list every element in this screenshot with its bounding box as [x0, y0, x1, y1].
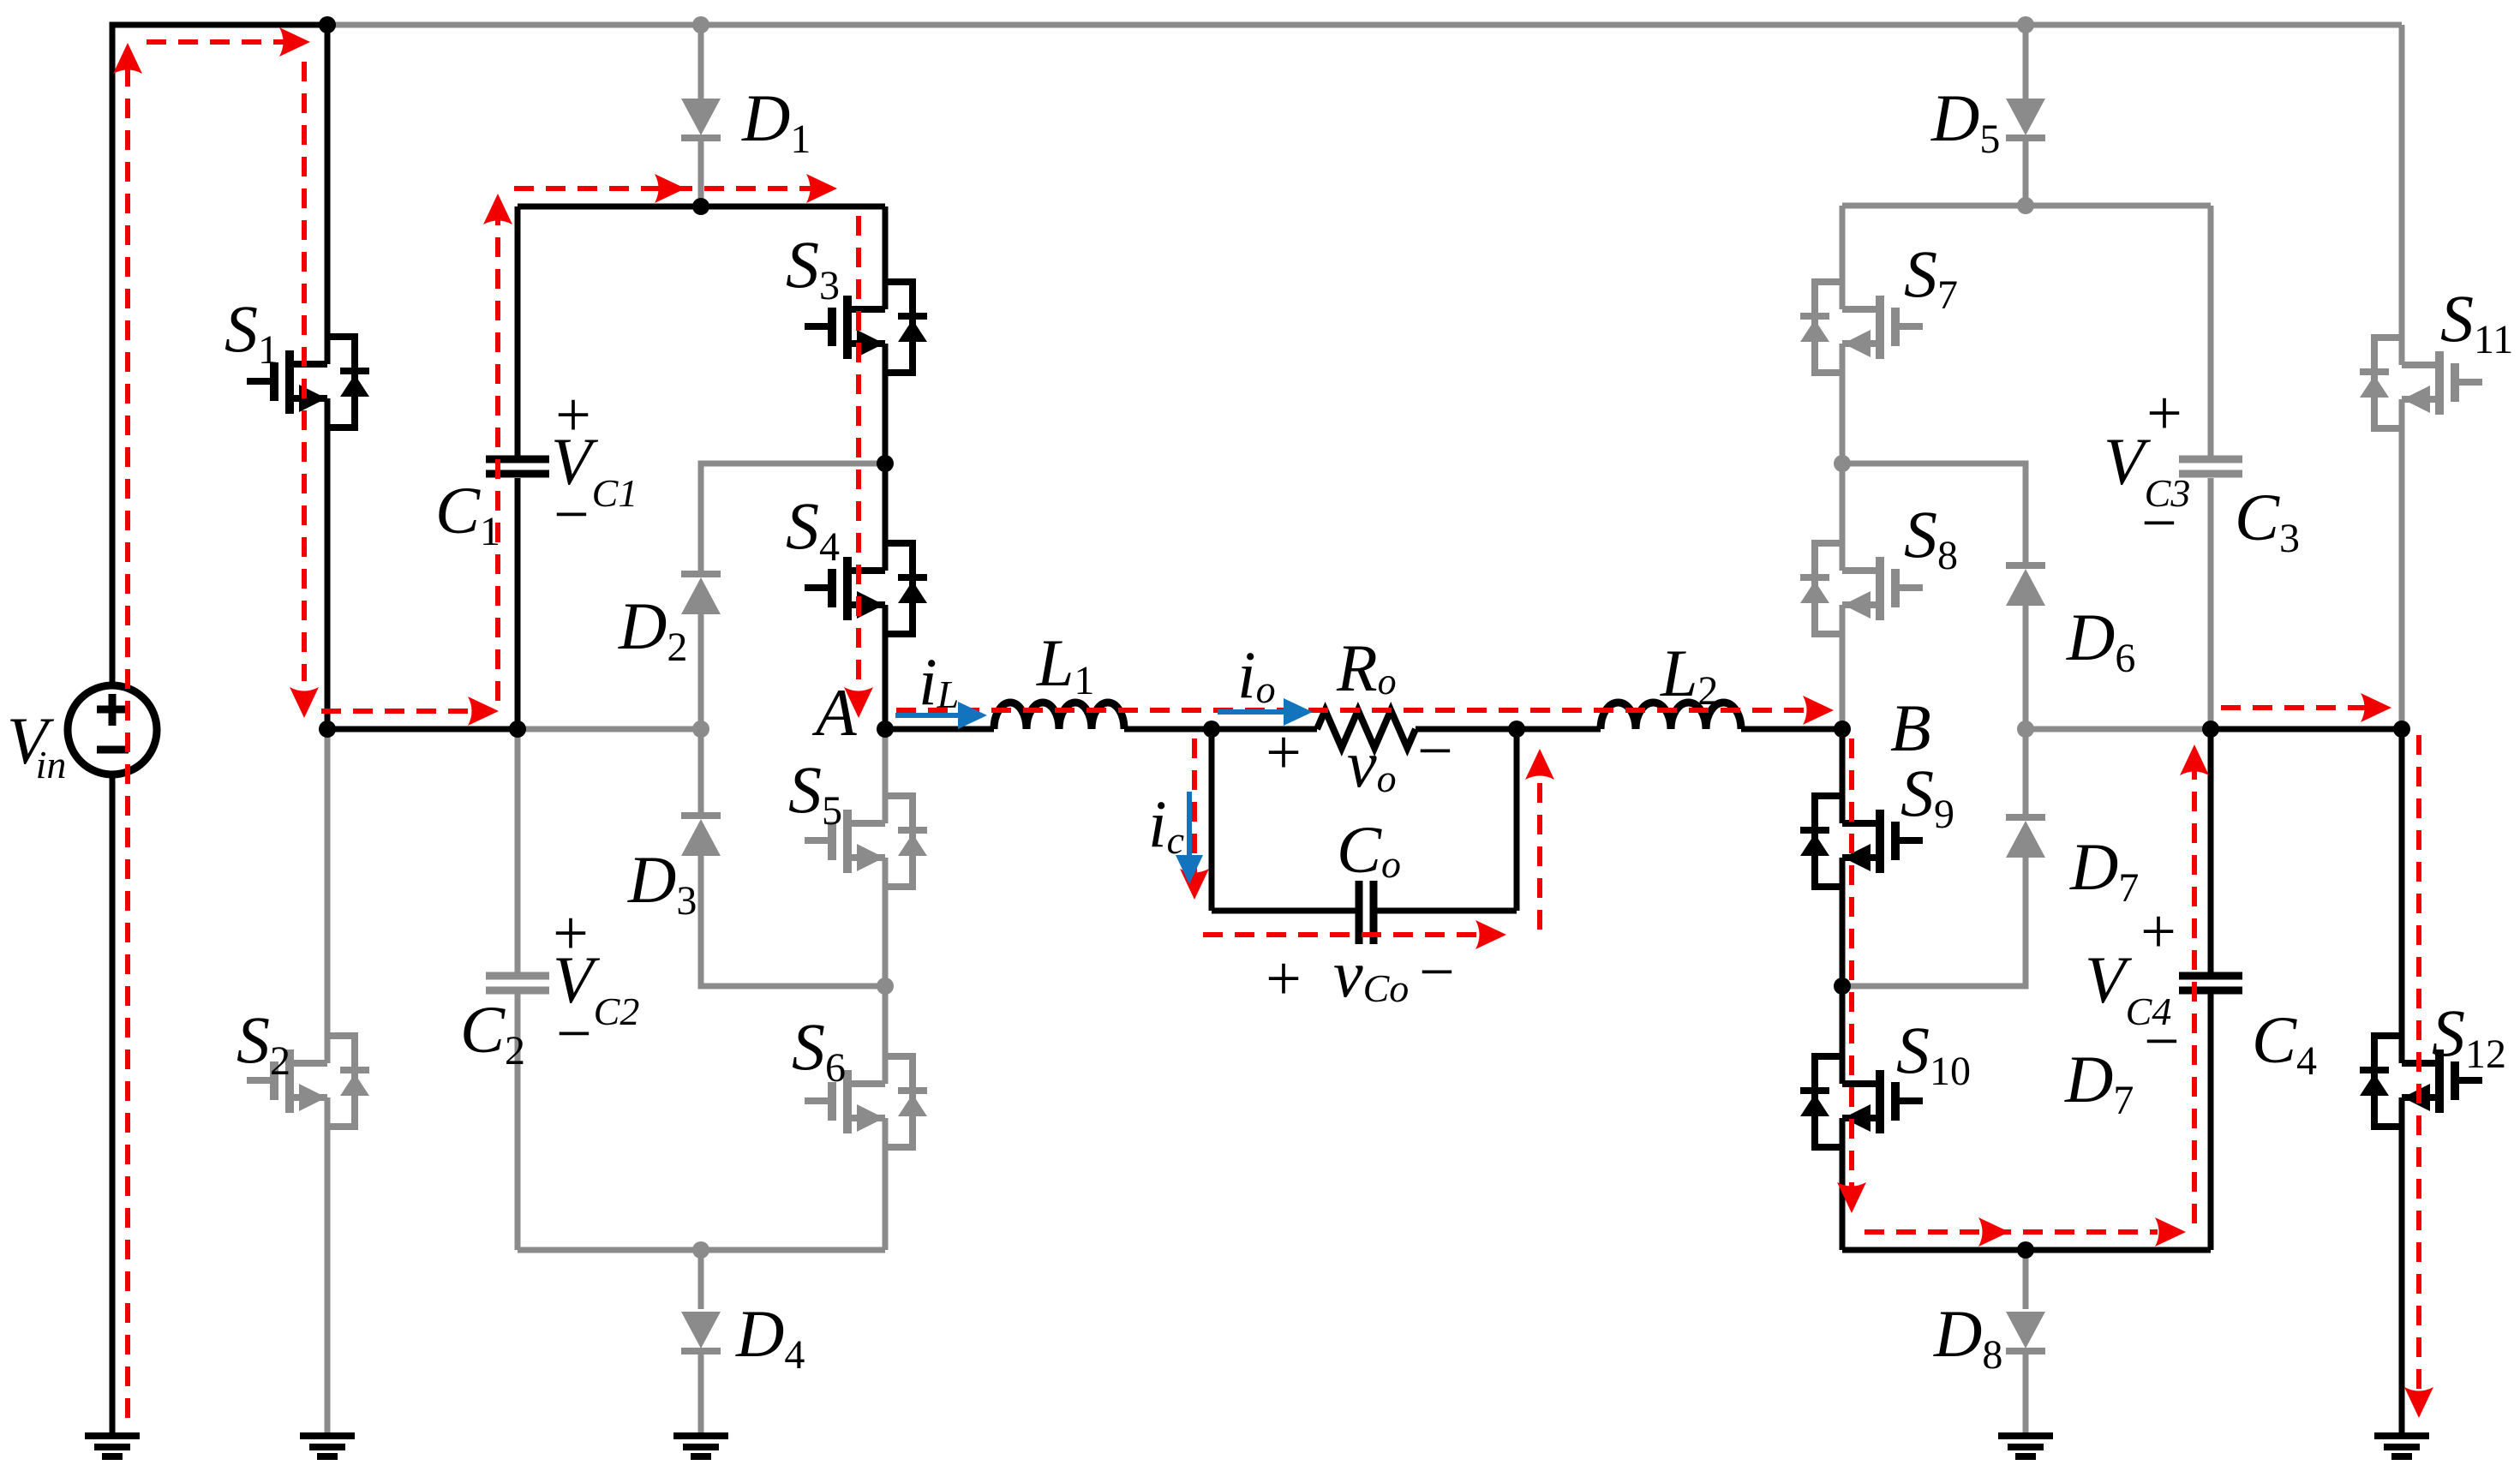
wire output loop right vertical [1514, 729, 1520, 911]
transistor S7 [1800, 282, 1923, 373]
svg-text:C4: C4 [2252, 1002, 2317, 1084]
node main D6-D7 [2017, 721, 2034, 738]
wire bottom jog S10 to C4 [1842, 1247, 2211, 1253]
svg-text:vCo: vCo [1333, 936, 1409, 1011]
wire D4 upper lead [698, 1250, 704, 1309]
wire main line C4 node to S12 node [2211, 727, 2402, 733]
node main C3-C4 [2202, 721, 2219, 738]
inductor L1 [994, 703, 1124, 729]
svg-text:S1: S1 [224, 291, 278, 373]
wire C2 lower leg [515, 994, 521, 1250]
wire S7 drain leg [1840, 206, 1846, 309]
wire node S9-S10 to S10 drain [1840, 986, 1846, 1084]
svg-text:−: − [2141, 488, 2177, 559]
inductor L2 [1601, 703, 1741, 729]
wire S9 drain from node B [1840, 729, 1846, 823]
node D1 at upper jog [692, 198, 709, 215]
node top rail D1 [692, 16, 709, 33]
svg-text:−: − [1419, 937, 1455, 1008]
red arrow right at top rail [279, 27, 310, 57]
red arrow up at Vin top [113, 43, 142, 74]
wire node S5-S6 to S6 drain [883, 986, 889, 1084]
svg-text:S11: S11 [2440, 281, 2513, 362]
wire S10 source to bottom jog [1840, 1118, 1846, 1250]
svg-text:vo: vo [1347, 727, 1397, 801]
svg-text:+: + [2140, 897, 2176, 967]
svg-text:io: io [1237, 637, 1276, 712]
svg-text:+: + [1266, 944, 1302, 1014]
diode D8 [2006, 1312, 2045, 1348]
wire S11 drain branch from top rail [2399, 25, 2405, 365]
wire main line node S1 to node C1 [327, 727, 518, 733]
wire C4 lower leg [2208, 994, 2214, 1250]
wire S3 source to S4 drain [883, 344, 889, 571]
diode D5 [2006, 99, 2045, 135]
svg-text:S3: S3 [786, 227, 840, 308]
svg-text:ic: ic [1148, 786, 1184, 862]
red dashed path down S1 branch [302, 62, 307, 681]
wire D7 jog to node S9-S10 [1842, 858, 2026, 986]
wire D3 upper lead [698, 729, 704, 812]
red arrow right on bottom jog end [2155, 1217, 2186, 1247]
wire D7 upper lead [2023, 729, 2029, 814]
red dashed path up output loop right [1537, 769, 1542, 930]
wire D4 lower lead [698, 1354, 704, 1433]
node B [1834, 721, 1851, 738]
svg-text:Vin: Vin [7, 703, 66, 786]
node main S1 [319, 721, 336, 738]
svg-text:L2: L2 [1660, 636, 1718, 714]
wire output loop bottom right of Co [1376, 908, 1517, 914]
transistor S9 [1800, 796, 1923, 887]
wire S6 source to bottom jog [883, 1118, 889, 1250]
transistor S2 [247, 1036, 369, 1127]
wire S4 source to node A [883, 605, 889, 729]
svg-text:C3: C3 [2235, 480, 2300, 561]
svg-text:S2: S2 [236, 1002, 290, 1084]
wire S3 drain leg [883, 206, 889, 309]
transistor S11 [2360, 338, 2482, 428]
ground at D4 [673, 1436, 728, 1456]
capacitor C2 [486, 972, 549, 980]
wire D6 lower lead [2023, 606, 2029, 729]
red dashed path up C1 branch [495, 214, 500, 701]
node main S11-S12 [2393, 721, 2410, 738]
ground at Vin [85, 1436, 140, 1456]
wire C3 lower leg [2208, 478, 2214, 729]
node main C1-C2 [509, 721, 526, 738]
svg-text:Ro: Ro [1336, 631, 1397, 705]
node A [877, 721, 894, 738]
wire C1 upper leg [515, 206, 521, 456]
transistor S1 [247, 337, 369, 428]
svg-text:−: − [556, 999, 592, 1069]
node output loop left [1203, 721, 1220, 738]
svg-text:D2: D2 [618, 589, 687, 670]
wire D1 upper lead [698, 25, 704, 101]
red dashed path main toward S12 [2221, 705, 2373, 710]
wire upper jog C1 to S3 [518, 204, 885, 210]
transistor S10 [1800, 1056, 1923, 1147]
red arrow down at S12 bottom [2404, 1387, 2433, 1418]
red dashed path main toward C1 [321, 709, 482, 714]
svg-text:S9: S9 [1900, 756, 1954, 837]
red dashed path top rail to S1 [147, 39, 300, 45]
svg-text:S6: S6 [792, 1009, 846, 1091]
wire D5 upper lead [2023, 25, 2029, 101]
wire D2 lower lead [698, 614, 704, 729]
node S7-S8 [1834, 455, 1851, 472]
svg-text:S12: S12 [2432, 996, 2506, 1077]
wire S7 source to S8 drain [1840, 344, 1846, 571]
wire C4 upper leg [2208, 729, 2214, 972]
red dashed path down S9-S10 branch [1849, 739, 1854, 1194]
transistor S12 [2360, 1036, 2482, 1127]
wire top rail gray segment [327, 22, 2402, 28]
wire D2 jog from node S3-S4 [701, 463, 885, 571]
svg-text:S4: S4 [786, 488, 840, 570]
wire L2 to node B [1741, 727, 1842, 733]
ground at S12 [2374, 1436, 2429, 1456]
svg-text:−: − [1417, 716, 1453, 786]
wire S8 source to node B [1840, 605, 1846, 729]
red dashed path bottom jog toward C4 [1865, 1229, 2158, 1235]
node D5 at upper jog [2017, 197, 2034, 214]
capacitor C1 [486, 456, 549, 463]
red arrow right below Co [1475, 920, 1506, 949]
transistor S3 [805, 282, 927, 373]
ground at D8 [1998, 1436, 2053, 1456]
red dashed path along Vin branch [125, 64, 130, 1418]
diode D1 [681, 99, 721, 135]
wire S2 drain branch [325, 729, 331, 1063]
red arrow right on bottom jog mid [1978, 1217, 2009, 1247]
transistor S4 [805, 543, 927, 634]
wire C2 upper leg [515, 729, 521, 972]
wire left node to resistor Ro [1212, 727, 1317, 733]
wire S1 drain branch [325, 25, 331, 364]
red dashed path upper jog toward S3 [514, 186, 823, 191]
blue arrow ic [1176, 792, 1203, 884]
node bottom jog D8 [2017, 1241, 2034, 1259]
red arrow up on output loop right [1525, 749, 1554, 780]
svg-text:C1: C1 [435, 473, 500, 554]
node top rail D5 [2017, 16, 2034, 33]
svg-text:−: − [2144, 1007, 2180, 1077]
wire upper jog S7 to C3 [1842, 203, 2211, 209]
diode D2 [681, 571, 721, 577]
svg-text:D5: D5 [1930, 81, 2000, 162]
svg-text:S10: S10 [1896, 1013, 1971, 1094]
svg-text:D7: D7 [2064, 1042, 2134, 1123]
wire S11 source to main node [2399, 399, 2405, 729]
svg-text:+: + [1266, 718, 1302, 788]
capacitor C4 [2179, 972, 2242, 980]
red arrow right before node B [1803, 696, 1834, 725]
wire D1 lower lead [698, 138, 704, 206]
wire S12 drain branch [2399, 729, 2405, 1063]
blue arrow iL [895, 702, 987, 729]
wire S1 source to main node [325, 398, 331, 729]
svg-text:D4: D4 [735, 1296, 805, 1378]
svg-text:D7: D7 [2069, 829, 2139, 911]
wire D8 upper lead [2023, 1250, 2029, 1309]
svg-text:−: − [554, 480, 590, 550]
svg-text:A: A [811, 675, 857, 750]
wire S5 source to node S5-S6 [883, 858, 889, 986]
svg-text:D1: D1 [741, 81, 811, 162]
wire output loop bottom left of Co [1212, 908, 1356, 914]
diode D7 [2006, 814, 2045, 821]
blue arrow io [1218, 698, 1313, 726]
resistor Ro [1317, 710, 1416, 748]
svg-text:S8: S8 [1904, 497, 1958, 578]
node main D2-D3 [692, 721, 709, 738]
node bottom jog D4 [692, 1241, 709, 1259]
diode D6 [2006, 562, 2045, 569]
wire Vin bottom to ground [110, 774, 116, 1433]
wire D5 lower lead [2023, 138, 2029, 206]
red dashed path down S12 branch [2416, 735, 2421, 1395]
red dashed path up C4 branch [2192, 767, 2197, 1223]
red dashed path down output loop left [1192, 739, 1197, 874]
wire node A to L1 [885, 727, 994, 733]
wire D8 lower lead [2023, 1354, 2029, 1433]
svg-text:S5: S5 [788, 752, 842, 834]
wire output loop left vertical [1209, 729, 1215, 911]
capacitor C3 [2179, 456, 2242, 463]
svg-text:iL: iL [919, 644, 959, 719]
red dashed path down S3-S4 branch [856, 216, 861, 684]
transistor S6 [805, 1056, 927, 1147]
red arrow down at S1 bottom [290, 687, 319, 718]
svg-text:L1: L1 [1036, 625, 1094, 703]
capacitor Co [1359, 881, 1374, 944]
wire L1 to output loop left node [1124, 727, 1212, 733]
wire D3 jog to node S5-S6 [701, 856, 885, 986]
svg-text:D6: D6 [2066, 600, 2135, 681]
wire C3 upper leg [2208, 206, 2214, 456]
wire main line gray node C1 to node D2/D3 [518, 727, 701, 733]
wire main line gray D6/D7 node to C3/C4 node [2026, 727, 2211, 733]
node output loop right [1508, 721, 1525, 738]
svg-text:Co: Co [1337, 812, 1401, 887]
diode D4 [681, 1312, 721, 1348]
node S9-S10 [1834, 978, 1851, 995]
wire S2 source to ground [325, 1097, 331, 1433]
wire C1 lower leg [515, 478, 521, 729]
wire S5 drain from node A [883, 729, 889, 823]
svg-text:S7: S7 [1904, 236, 1958, 318]
wire right node to L2 [1517, 727, 1601, 733]
red arrow down on output loop left [1180, 869, 1209, 900]
red dashed path main line A to B [896, 708, 1815, 713]
voltage source Vin [68, 685, 157, 774]
wire S12 source to ground [2399, 1097, 2405, 1433]
red arrow down above bottom jog [1837, 1182, 1866, 1213]
diode D3 [681, 812, 721, 819]
node S5-S6 [877, 978, 894, 995]
node top rail S1 [319, 16, 336, 33]
red arrow right before S12 node [2361, 693, 2391, 722]
svg-text:D8: D8 [1933, 1296, 2002, 1378]
red arrow right on upper jog mid [655, 174, 685, 203]
transistor S5 [805, 796, 927, 887]
red dashed path below Co [1203, 932, 1489, 937]
red arrow down above node A [844, 687, 873, 718]
wire D6 jog from node S7-S8 [1842, 463, 2026, 562]
svg-text:B: B [1890, 691, 1931, 765]
red arrow right on upper jog end [806, 174, 837, 203]
red arrow up below C4 node [2180, 744, 2209, 775]
red arrow up at C1 top [483, 194, 512, 224]
wire resistor Ro to right node [1416, 727, 1517, 733]
wire top rail black segment from Vin [112, 25, 327, 685]
ground at S2 [300, 1436, 355, 1456]
svg-text:+: + [2146, 379, 2182, 449]
wire bottom jog C2 to S6 [518, 1247, 885, 1253]
node S3-S4 [877, 455, 894, 472]
red arrow right before C1 [468, 697, 499, 726]
transistor S8 [1800, 543, 1923, 634]
wire S9 source to node S9-S10 [1840, 858, 1846, 986]
